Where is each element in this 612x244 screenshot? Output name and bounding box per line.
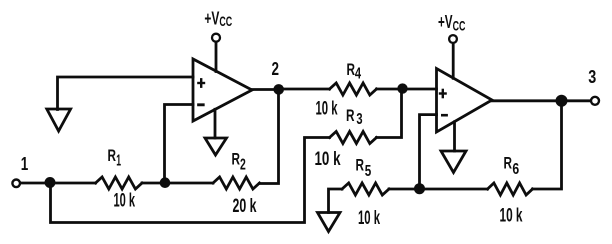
ground bbox=[47, 109, 71, 131]
+Vcc label U1 bbox=[204, 8, 232, 29]
svg-text:R: R bbox=[347, 60, 356, 79]
svg-text:4: 4 bbox=[355, 66, 361, 83]
wire bbox=[260, 89, 279, 183]
svg-text:2: 2 bbox=[272, 59, 280, 79]
svg-text:1: 1 bbox=[116, 153, 121, 170]
terminal 1 bbox=[12, 180, 20, 188]
svg-text:10 k: 10 k bbox=[358, 208, 380, 229]
wire bbox=[533, 101, 562, 189]
resistor R3 bbox=[330, 132, 377, 144]
node 2 junction bbox=[273, 84, 284, 95]
junction node B bbox=[414, 183, 425, 194]
+Vcc label U2 bbox=[438, 12, 465, 34]
svg-text:6: 6 bbox=[512, 161, 519, 178]
wire bbox=[214, 109, 217, 138]
svg-text:R: R bbox=[356, 156, 365, 175]
svg-text:R: R bbox=[232, 150, 241, 169]
wire bbox=[420, 115, 437, 189]
svg-text:CC: CC bbox=[219, 13, 232, 29]
svg-text:3: 3 bbox=[588, 67, 596, 87]
svg-text:10 k: 10 k bbox=[500, 206, 523, 227]
svg-text:5: 5 bbox=[365, 163, 372, 180]
svg-text:CC: CC bbox=[453, 17, 466, 33]
wire bbox=[329, 189, 343, 213]
wire bbox=[420, 188, 488, 191]
+Vcc supply U2 bbox=[449, 35, 457, 43]
U2 minus input bbox=[442, 114, 446, 117]
svg-text:20 k: 20 k bbox=[233, 196, 257, 217]
junction node R1/R2 bbox=[160, 177, 171, 188]
svg-text:3: 3 bbox=[356, 111, 362, 128]
wire bbox=[452, 44, 455, 78]
wire bbox=[50, 182, 96, 185]
wire bbox=[377, 88, 437, 91]
wire bbox=[165, 105, 194, 184]
resistor R4 bbox=[330, 83, 377, 95]
ground bbox=[205, 138, 227, 155]
wire bbox=[279, 88, 330, 91]
wire bbox=[252, 88, 279, 91]
label R6 bbox=[504, 154, 520, 179]
node 3 junction bbox=[556, 95, 568, 107]
wire bbox=[492, 99, 590, 102]
U1 plus input bbox=[198, 79, 204, 86]
svg-text:10 k: 10 k bbox=[114, 191, 136, 212]
resistor R2 bbox=[213, 177, 260, 189]
+Vcc supply U1 bbox=[212, 34, 220, 42]
resistor R5 bbox=[342, 183, 389, 195]
U1 minus input bbox=[199, 103, 204, 106]
wire bbox=[215, 43, 218, 72]
label R4 bbox=[347, 60, 362, 83]
label R2 bbox=[232, 150, 246, 174]
resistor R1 bbox=[96, 177, 143, 189]
wire bbox=[21, 182, 46, 185]
label R3 bbox=[346, 106, 363, 128]
svg-text:R: R bbox=[108, 146, 117, 165]
svg-text:1: 1 bbox=[21, 154, 29, 174]
U2 plus input bbox=[440, 90, 446, 97]
svg-text:+V: +V bbox=[438, 12, 453, 32]
svg-text:+V: +V bbox=[204, 8, 219, 28]
ground bbox=[318, 213, 341, 232]
terminal 3 bbox=[591, 97, 599, 105]
op-amp U2 bbox=[437, 69, 493, 133]
label R5 bbox=[356, 156, 372, 181]
svg-text:10 k: 10 k bbox=[315, 149, 341, 170]
wire bbox=[142, 182, 213, 185]
svg-text:R: R bbox=[504, 154, 513, 173]
svg-text:R: R bbox=[346, 106, 355, 125]
wire bbox=[58, 77, 194, 110]
wire bbox=[453, 122, 456, 151]
node A junction bbox=[397, 83, 407, 93]
op-amp U1 bbox=[193, 59, 252, 121]
wire bbox=[377, 89, 402, 138]
resistor R6 bbox=[488, 183, 533, 195]
wire bbox=[51, 138, 330, 223]
svg-text:2: 2 bbox=[240, 156, 246, 173]
label R1 bbox=[108, 146, 122, 170]
junction node 1 bbox=[45, 177, 56, 188]
wire bbox=[389, 188, 420, 191]
ground bbox=[441, 151, 466, 173]
svg-text:10 k: 10 k bbox=[316, 99, 338, 120]
